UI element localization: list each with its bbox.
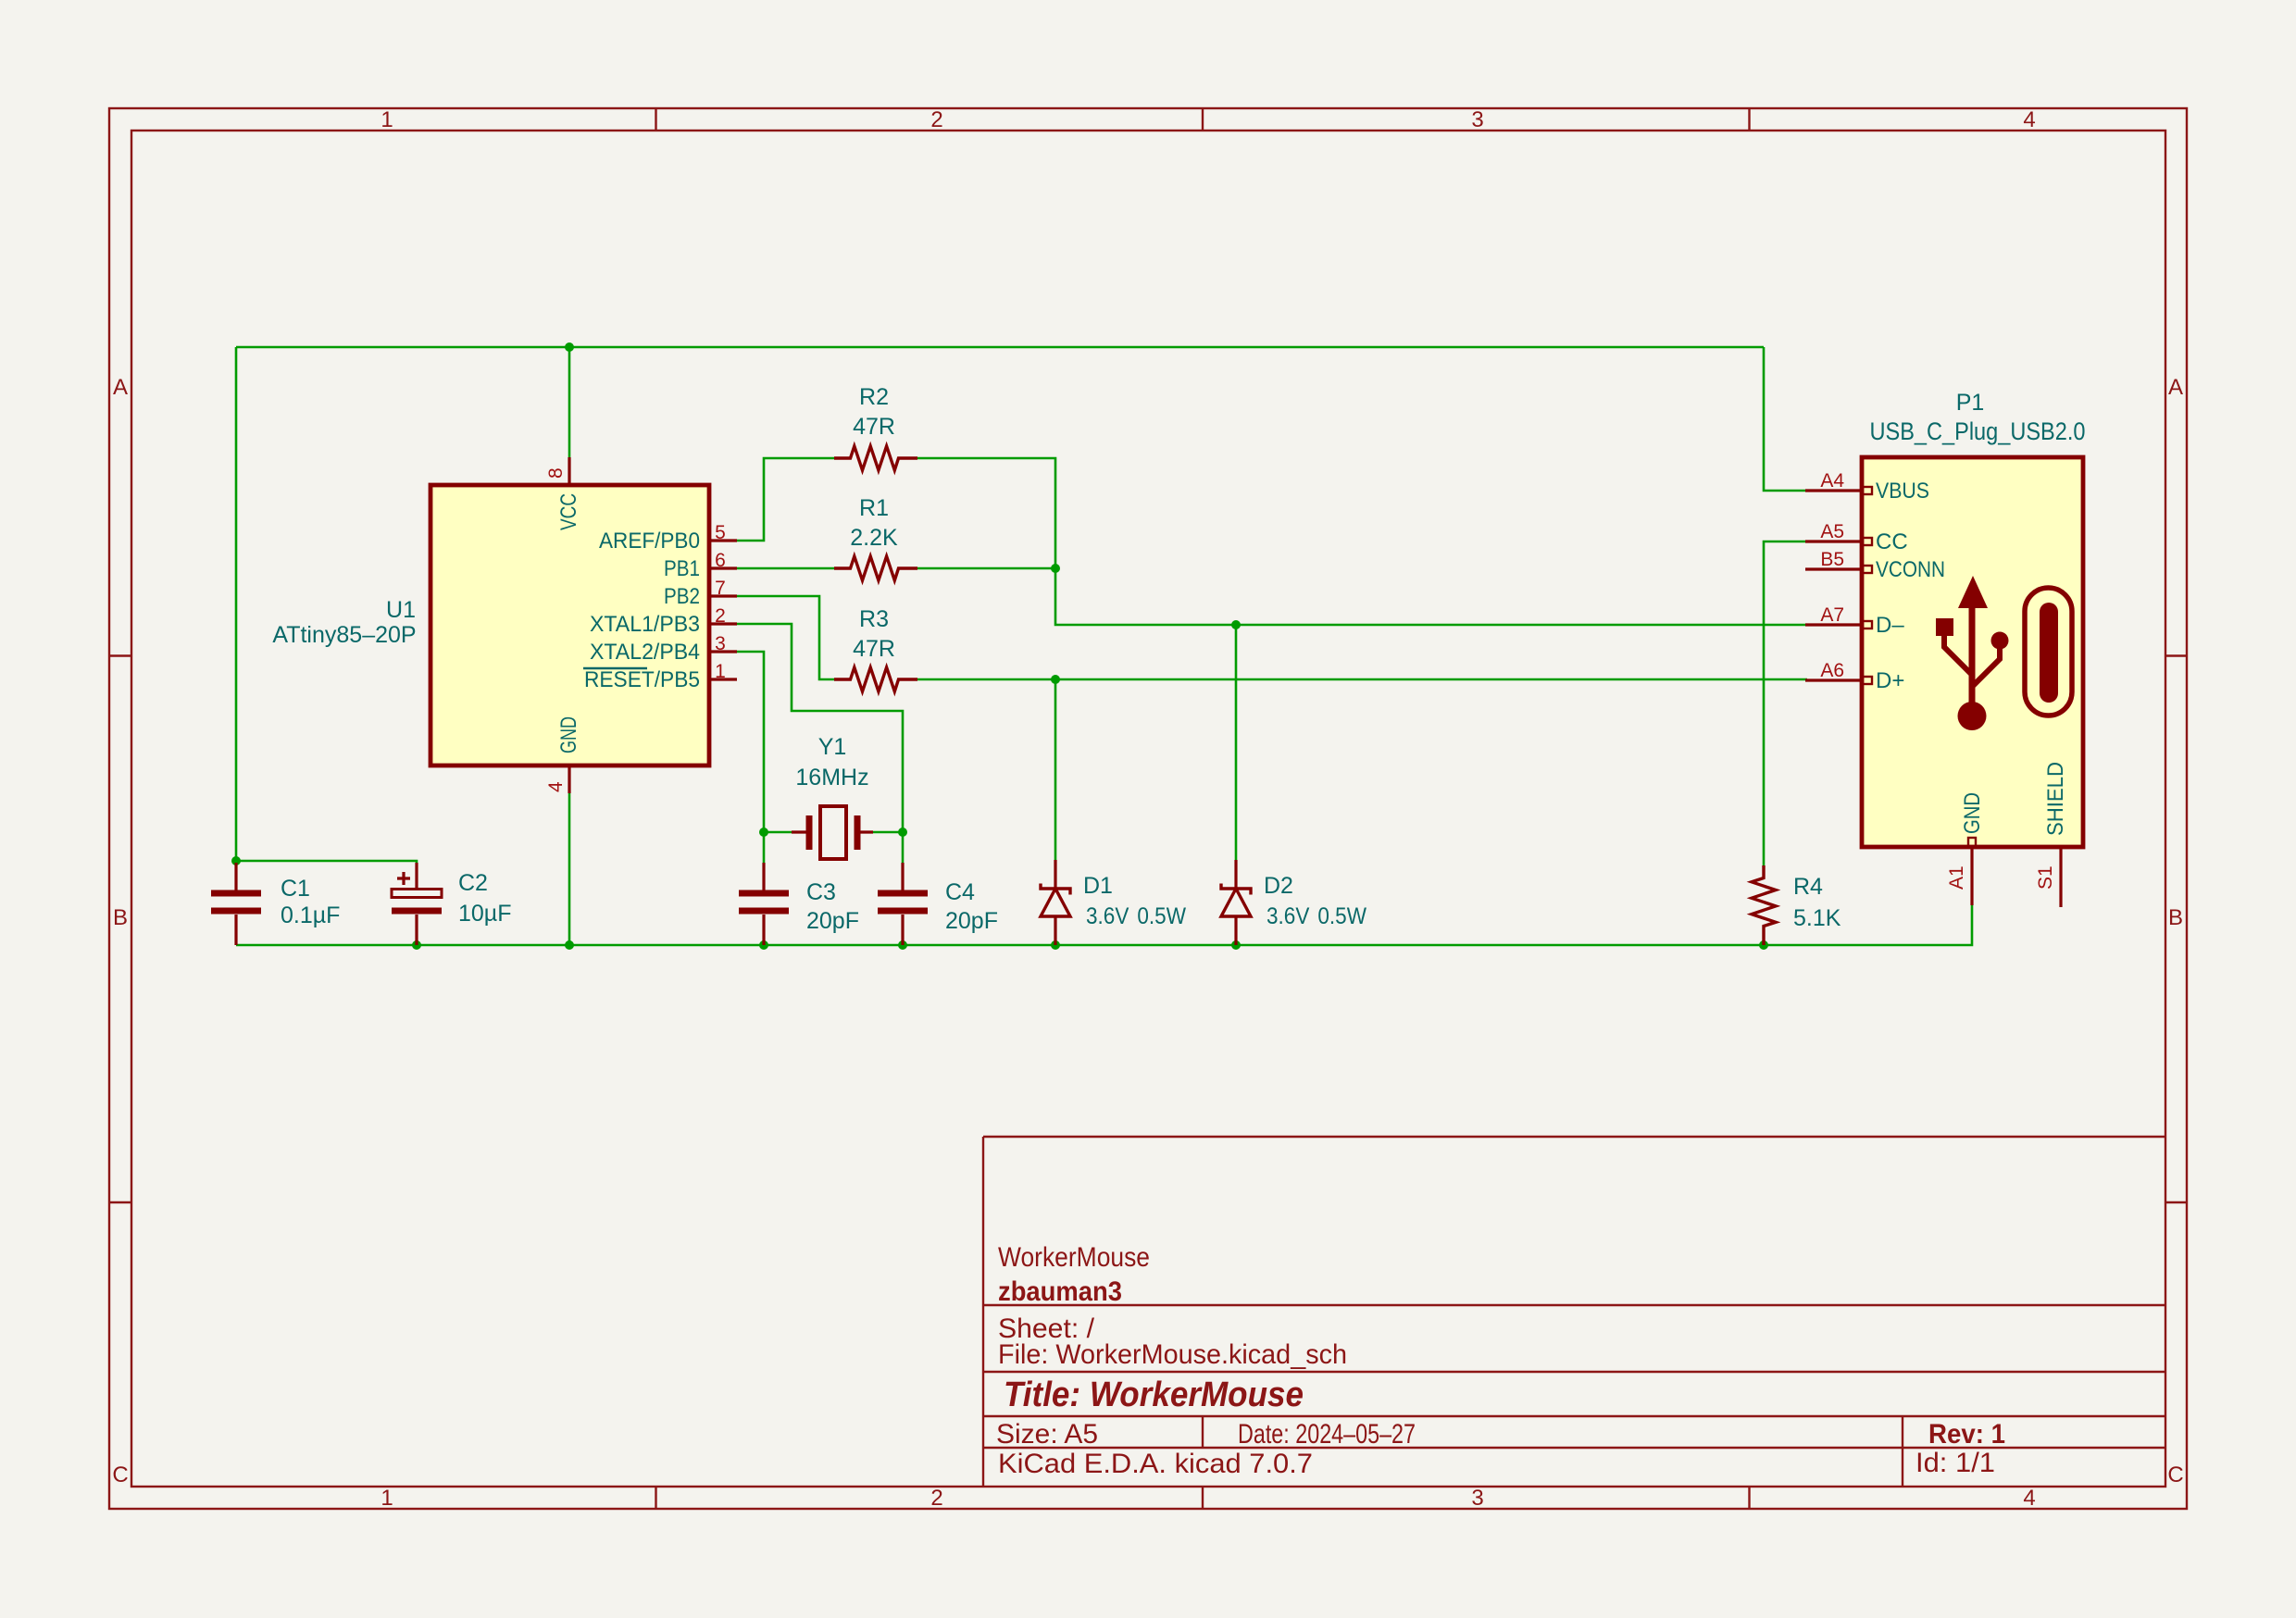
svg-text:Title: WorkerMouse: Title: WorkerMouse — [1004, 1375, 1304, 1414]
P1 pin A7 D- stub — [1805, 621, 1872, 629]
svg-text:P1: P1 — [1956, 390, 1985, 416]
svg-text:B: B — [2168, 905, 2183, 930]
frame ticks left — [109, 656, 131, 1203]
svg-text:B: B — [113, 905, 128, 930]
U1 pin 7 stub — [709, 594, 737, 597]
svg-text:8: 8 — [545, 467, 567, 479]
svg-text:5.1K: 5.1K — [1793, 905, 1841, 931]
svg-text:XTAL2/PB4: XTAL2/PB4 — [590, 640, 700, 665]
wire VCC rail — [236, 346, 1764, 349]
svg-text:D2: D2 — [1264, 873, 1293, 899]
junction D1 bottom on rail — [1051, 940, 1060, 950]
wire U1 VCC pin8 — [568, 347, 571, 459]
frame inner border — [131, 131, 2165, 1487]
U1 pin 3 stub — [709, 650, 737, 653]
svg-text:B5: B5 — [1820, 549, 1844, 570]
wire CC to R4 — [1764, 541, 1807, 867]
wire D+ net — [917, 678, 1807, 681]
svg-text:ATtiny85–20P: ATtiny85–20P — [272, 622, 416, 648]
svg-text:C: C — [112, 1462, 128, 1487]
wire VBUS drop — [1764, 347, 1807, 491]
IC U1 body — [430, 485, 709, 765]
zener diode D1 — [1041, 860, 1070, 945]
wire R2 out to junction — [917, 458, 1055, 568]
junction D1 on D+ line — [1051, 675, 1060, 684]
P1 pin A1 GND stub — [1968, 838, 1976, 905]
resistor R3 — [834, 667, 917, 691]
svg-text:16MHz: 16MHz — [795, 765, 868, 790]
P1 USB trident logo — [1936, 576, 2009, 730]
svg-text:R1: R1 — [859, 495, 889, 521]
wire U1 GND pin4 — [568, 791, 571, 945]
svg-text:AREF/PB0: AREF/PB0 — [599, 529, 700, 554]
wire R1 out — [917, 567, 1055, 570]
svg-text:5: 5 — [715, 522, 726, 543]
title block frame — [983, 1137, 2165, 1487]
wire crystal right lead — [872, 831, 903, 834]
svg-text:Date: 2024–05–27: Date: 2024–05–27 — [1238, 1419, 1416, 1450]
U1 pin 2 stub — [709, 622, 737, 625]
svg-text:VBUS: VBUS — [1876, 479, 1929, 504]
svg-text:Y1: Y1 — [818, 734, 847, 760]
U1 RESET overline — [583, 667, 647, 670]
svg-text:CC: CC — [1876, 529, 1908, 554]
svg-text:zbauman3: zbauman3 — [998, 1276, 1122, 1307]
wire C4 top — [902, 832, 905, 865]
junction D2 on D- line — [1231, 620, 1241, 629]
U1 pin 6 stub — [709, 566, 737, 569]
svg-text:U1: U1 — [386, 597, 416, 623]
svg-text:USB_C_Plug_USB2.0: USB_C_Plug_USB2.0 — [1870, 417, 2086, 445]
P1 pin A5 CC stub — [1805, 538, 1872, 545]
svg-text:XTAL1/PB3: XTAL1/PB3 — [590, 612, 700, 637]
junction R4 bottom on rail — [1759, 940, 1768, 950]
svg-text:2: 2 — [715, 605, 726, 627]
svg-text:7: 7 — [715, 578, 726, 599]
crystal Y1 — [792, 806, 873, 859]
svg-text:C2: C2 — [458, 870, 488, 896]
junction D2 bottom on rail — [1231, 940, 1241, 950]
wire PB1 to R1 — [735, 567, 834, 570]
svg-text:RESET/PB5: RESET/PB5 — [584, 667, 700, 692]
junction crystal left / C3 — [759, 828, 768, 837]
wire XTAL2/PB4 to crystal left — [735, 652, 764, 832]
svg-text:1: 1 — [381, 1486, 393, 1511]
svg-text:0.1µF: 0.1µF — [281, 902, 340, 928]
svg-text:Rev: 1: Rev: 1 — [1928, 1419, 2005, 1450]
wire crystal left lead — [764, 831, 794, 834]
wire PB2 down to R3 — [735, 596, 834, 679]
wire GND rail — [236, 905, 1972, 945]
svg-text:10µF: 10µF — [458, 901, 511, 927]
svg-text:3.6V 0.5W: 3.6V 0.5W — [1086, 903, 1186, 929]
svg-text:PB1: PB1 — [664, 556, 700, 581]
svg-text:47R: 47R — [853, 414, 895, 440]
svg-text:GND: GND — [556, 716, 581, 753]
svg-text:S1: S1 — [2035, 865, 2056, 890]
svg-text:A1: A1 — [1946, 865, 1967, 890]
svg-text:VCC: VCC — [556, 493, 581, 530]
svg-text:4: 4 — [2023, 107, 2035, 132]
wire PB0 to R2 — [735, 458, 834, 541]
svg-text:WorkerMouse: WorkerMouse — [998, 1242, 1150, 1273]
resistor R4 — [1752, 865, 1776, 945]
U1 pin 8 VCC stub — [568, 457, 570, 485]
resistor R2 — [834, 446, 917, 470]
P1 pin A6 D+ stub — [1805, 677, 1872, 684]
capacitor C4 — [878, 863, 928, 945]
svg-text:1: 1 — [715, 661, 726, 682]
capacitor C1 — [211, 863, 261, 945]
svg-text:47R: 47R — [853, 636, 895, 662]
P1 pin S1 SHIELD stub — [2059, 847, 2062, 907]
svg-text:3: 3 — [715, 633, 726, 654]
junction U1 GND on rail — [565, 940, 574, 950]
junction R1/R2 outputs — [1051, 564, 1060, 573]
svg-text:A7: A7 — [1820, 604, 1844, 626]
P1 pin B5 VCONN stub — [1805, 566, 1872, 573]
svg-text:20pF: 20pF — [945, 908, 998, 934]
frame ticks right — [2165, 656, 2187, 1203]
svg-text:C1: C1 — [281, 876, 310, 902]
frame outer border — [109, 108, 2187, 1509]
P1 USB-C plug cross-section — [2025, 588, 2072, 716]
junction crystal right / C4 — [898, 828, 907, 837]
wire D2 top — [1235, 625, 1238, 864]
junction C1 top — [231, 856, 241, 865]
svg-text:2: 2 — [930, 1486, 942, 1511]
wire D- net — [1055, 568, 1807, 625]
U1 pin 4 GND stub — [568, 765, 570, 793]
svg-text:A5: A5 — [1820, 521, 1844, 542]
svg-text:20pF: 20pF — [806, 908, 859, 934]
svg-text:C: C — [2167, 1462, 2183, 1487]
capacitor C3 — [739, 863, 789, 945]
junction C2 bottom on GND rail — [412, 940, 421, 950]
wire C2 branch — [236, 861, 417, 865]
svg-text:File: WorkerMouse.kicad_sch: File: WorkerMouse.kicad_sch — [998, 1339, 1347, 1370]
svg-text:4: 4 — [545, 781, 567, 792]
frame ticks top — [656, 108, 1750, 131]
svg-text:3: 3 — [1471, 107, 1483, 132]
junction VCC at U1 pin8 — [565, 342, 574, 352]
svg-text:A: A — [2168, 375, 2183, 400]
connector P1 body — [1862, 457, 2083, 847]
svg-text:R3: R3 — [859, 606, 889, 632]
P1 pin A4 VBUS stub — [1805, 487, 1872, 494]
svg-text:1: 1 — [381, 107, 393, 132]
svg-text:A: A — [113, 375, 128, 400]
svg-text:2: 2 — [930, 107, 942, 132]
zener diode D2 — [1221, 860, 1251, 945]
capacitor C2 polarized — [392, 863, 442, 945]
svg-text:C4: C4 — [945, 879, 975, 905]
svg-text:3.6V 0.5W: 3.6V 0.5W — [1267, 903, 1366, 929]
svg-text:VCONN: VCONN — [1876, 557, 1945, 582]
junction C4 bottom on rail — [898, 940, 907, 950]
svg-text:D1: D1 — [1083, 873, 1113, 899]
svg-text:3: 3 — [1471, 1486, 1483, 1511]
svg-text:A6: A6 — [1820, 660, 1844, 681]
svg-text:R4: R4 — [1793, 874, 1823, 900]
svg-text:C3: C3 — [806, 879, 836, 905]
svg-text:D–: D– — [1876, 613, 1904, 638]
svg-text:D+: D+ — [1876, 668, 1904, 693]
svg-text:6: 6 — [715, 550, 726, 571]
svg-text:2.2K: 2.2K — [850, 525, 898, 551]
svg-text:KiCad E.D.A. kicad 7.0.7: KiCad E.D.A. kicad 7.0.7 — [998, 1449, 1313, 1479]
wire C3 top — [763, 832, 766, 865]
svg-text:Id: 1/1: Id: 1/1 — [1915, 1448, 1995, 1478]
svg-text:SHIELD: SHIELD — [2043, 762, 2068, 836]
frame ticks bottom — [656, 1487, 1750, 1509]
svg-text:R2: R2 — [859, 384, 889, 410]
svg-text:PB2: PB2 — [664, 584, 700, 609]
resistor R1 — [834, 556, 917, 580]
U1 pin 5 stub — [709, 539, 737, 541]
wire D1 top — [1054, 679, 1057, 864]
wire XTAL1/PB3 to crystal right — [735, 624, 903, 832]
svg-text:4: 4 — [2023, 1486, 2035, 1511]
junction C3 bottom on rail — [759, 940, 768, 950]
svg-text:A4: A4 — [1820, 470, 1844, 492]
U1 pin 1 stub — [709, 678, 737, 680]
wire VCC left drop to C1/C2 — [235, 347, 238, 861]
svg-text:GND: GND — [1960, 792, 1985, 834]
svg-text:Size: A5: Size: A5 — [996, 1419, 1098, 1450]
